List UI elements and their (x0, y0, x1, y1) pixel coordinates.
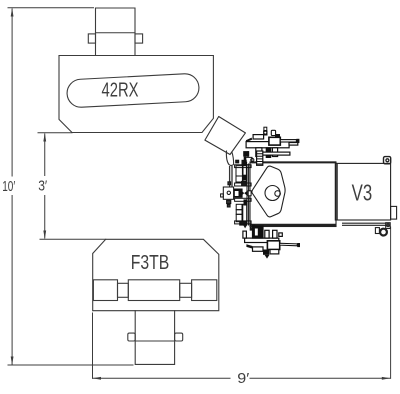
svg-text:42RX: 42RX (102, 80, 139, 102)
valve upper piston bar (243, 166, 246, 182)
clamp small circle (275, 191, 281, 197)
coupling block (234, 189, 243, 198)
tm ladder rungs (257, 154, 263, 164)
bolster bar middle (128, 280, 179, 301)
tm top plate (275, 134, 280, 137)
arrow 10' down (11, 357, 14, 366)
svg-text:3′: 3′ (38, 178, 47, 195)
V3 box (335, 163, 390, 220)
valve upper cap top (242, 160, 246, 165)
svg-text:F3TB: F3TB (131, 252, 170, 274)
under-box rail (342, 223, 390, 225)
tm bracket (246, 151, 252, 163)
tm ladder (257, 151, 263, 165)
solenoid top cap (228, 182, 231, 185)
bm cyl c (265, 230, 269, 238)
arrow 9' left (93, 377, 102, 380)
wall bottom bracket (250, 225, 254, 230)
tilted hopper square (205, 117, 246, 155)
bm left diag (246, 244, 252, 248)
clamp circle (265, 186, 280, 201)
flange bottom (235, 221, 252, 224)
arrow 10' up (11, 8, 14, 17)
bm below b (270, 250, 279, 254)
tm cyl mid (266, 148, 270, 158)
corner bracket circle (386, 159, 389, 162)
arrow 3' down (43, 231, 46, 240)
tm top bolt knob (264, 127, 267, 130)
corner bracket square (384, 157, 391, 164)
bm drip triangle (265, 255, 270, 259)
tm lower bar (261, 152, 290, 155)
hopper spout (226, 151, 233, 166)
core left wall (248, 164, 250, 226)
svg-text:10′: 10′ (2, 178, 15, 195)
pedestal right tab (175, 333, 183, 341)
bm cyl b (253, 226, 264, 238)
barrel left bolt upper (244, 175, 248, 181)
dim 3' extension top (38, 132, 72, 134)
press neck (96, 8, 136, 56)
dim 9' extension left (92, 313, 94, 378)
bolster key left (118, 283, 129, 297)
dim 3' line (44, 134, 46, 238)
valve body lower mid (236, 210, 242, 215)
bolster key right (180, 283, 192, 297)
tm left plate (253, 135, 264, 139)
dim 9' extension right (390, 227, 392, 378)
solenoid stem box (227, 200, 231, 203)
tm blob foot (243, 162, 247, 166)
injection barrel body (250, 162, 336, 227)
valve upper cap top2 (236, 160, 239, 163)
F3TB bed block (93, 239, 219, 310)
tm left bolt wedge (246, 138, 252, 142)
valve upper cap bottom (242, 181, 247, 185)
valve body lower bottom (236, 214, 242, 221)
arrow 9' right (382, 377, 391, 380)
dim 3' extension bottom (40, 238, 106, 240)
tm bracket circle (251, 158, 254, 161)
valve body upper (236, 166, 242, 176)
dim 9' line (93, 377, 391, 379)
solenoid left tab (221, 194, 224, 197)
caster wheel (380, 229, 387, 236)
bm below a (253, 247, 264, 251)
bm rod tip (297, 243, 300, 247)
tm rod (280, 140, 296, 142)
bm rod (280, 243, 298, 246)
svg-text:V3: V3 (352, 180, 373, 206)
right side tab (391, 206, 397, 219)
barrel left flange wall (246, 164, 248, 225)
tm top bolt dot (264, 132, 266, 134)
solenoid tail box (227, 204, 230, 207)
flange top (235, 165, 252, 168)
cable to solenoid (230, 166, 232, 187)
solenoid circle (227, 191, 230, 194)
tm plate (246, 142, 289, 148)
tm top bolt (263, 131, 267, 136)
neck right tab (135, 34, 143, 43)
coupling center (235, 191, 239, 196)
tm rod tip (296, 139, 299, 143)
bm bit e (279, 233, 283, 237)
bolster bar right (192, 280, 217, 301)
dim 10' extension top (8, 7, 94, 9)
42RX head block (59, 56, 213, 133)
bm central block (267, 241, 279, 250)
caster axle square (386, 223, 391, 229)
valve body lower (236, 204, 242, 209)
bowtie valve (241, 190, 248, 196)
bolster bar left (93, 280, 117, 301)
barrel thick bottom edge (250, 224, 336, 226)
stadium slot (66, 73, 199, 108)
bm cyl b notch (255, 229, 258, 236)
dim 10' line (11, 9, 13, 364)
bowtie outlet fitting (248, 191, 251, 196)
valve body upper lower half (236, 176, 242, 182)
flange mid lower (235, 198, 252, 201)
dim 10' extension bottom (floor) (8, 364, 133, 366)
wall bottom bracket dot (251, 226, 254, 229)
bm plate (245, 238, 279, 242)
tm cyl right (272, 148, 277, 157)
barrel left bolt lower (244, 199, 248, 205)
barrel thick top edge (250, 161, 336, 163)
flange mid upper (235, 183, 252, 186)
arrow 3' up (43, 133, 46, 142)
valve lower piston bar (243, 204, 247, 221)
bm below black (263, 250, 269, 255)
bm cyl d (273, 230, 277, 238)
V3 flange double line (336, 164, 338, 220)
tm central valve (269, 137, 280, 145)
caster axle dot (387, 224, 390, 227)
clamp pentagon (252, 166, 285, 217)
tm left blob (243, 151, 249, 157)
pedestal cross line (135, 340, 174, 342)
tm top cylinder (271, 130, 275, 135)
tm blob stem (244, 157, 247, 163)
valve lower cap (240, 222, 247, 225)
valve lower tip (243, 225, 247, 228)
svg-text:9′: 9′ (237, 370, 249, 387)
tm cyl left (256, 148, 262, 157)
solenoid block (223, 187, 233, 199)
neck left tab (88, 34, 95, 43)
neck collar line (96, 32, 136, 34)
pedestal left tab (128, 333, 135, 341)
bm cyl a (243, 231, 247, 238)
base pedestal (135, 311, 174, 365)
caster bracket (375, 228, 379, 234)
tm plate right ext (289, 143, 298, 146)
